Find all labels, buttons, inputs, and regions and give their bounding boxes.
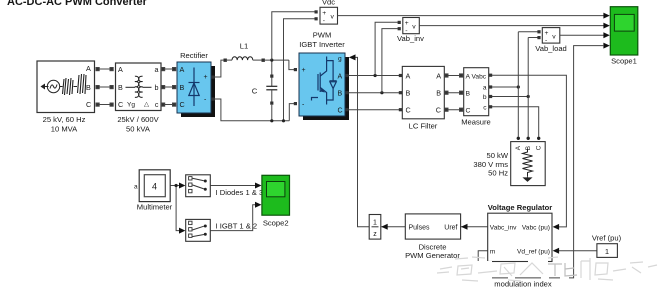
inverter IGBT icon bbox=[312, 57, 337, 105]
svg-text:+: + bbox=[545, 30, 549, 37]
svg-text:A: A bbox=[338, 73, 343, 80]
svg-text:B: B bbox=[118, 83, 123, 92]
wire Vab_load output to Scope1 input3 bbox=[560, 34, 609, 36]
svg-text:B: B bbox=[525, 146, 532, 150]
Measure output ports bbox=[489, 74, 492, 109]
svg-text:Vref (pu): Vref (pu) bbox=[592, 234, 622, 243]
Voltage Regulator block bbox=[488, 213, 552, 261]
junction dot B wire to Vab_inv bbox=[380, 91, 383, 94]
svg-text:C: C bbox=[338, 108, 343, 115]
svg-text:B: B bbox=[436, 89, 441, 98]
svg-text:g: g bbox=[338, 55, 342, 62]
svg-text:-: - bbox=[323, 18, 325, 25]
wire inverter A to LC filter bbox=[349, 75, 401, 77]
wire selector2 to Scope2 with label bbox=[211, 205, 257, 231]
svg-text:B: B bbox=[406, 89, 411, 98]
wire rectifier + to L1 bbox=[212, 60, 290, 121]
Measure block bbox=[464, 68, 489, 116]
svg-text:Multimeter: Multimeter bbox=[137, 203, 173, 212]
PWM IGBT Inverter block bbox=[299, 53, 349, 120]
svg-text:A: A bbox=[466, 73, 471, 80]
g input wire with arrow bbox=[349, 54, 369, 226]
wire measure b bbox=[492, 96, 528, 98]
svg-text:A: A bbox=[515, 145, 522, 150]
wire source A to transformer bbox=[96, 68, 113, 107]
svg-text:b: b bbox=[483, 94, 487, 101]
Scope1 bbox=[610, 7, 638, 55]
junction dot b bbox=[527, 95, 530, 98]
load block 50kW bbox=[511, 142, 546, 186]
svg-text:v: v bbox=[331, 14, 335, 21]
wire inverter C to LC filter bbox=[349, 109, 401, 111]
wire source C to transformer bbox=[96, 104, 113, 106]
svg-text:1: 1 bbox=[373, 220, 377, 227]
svg-text:PWM Generator: PWM Generator bbox=[405, 251, 460, 260]
svg-text:25 kV, 60 Hz: 25 kV, 60 Hz bbox=[43, 115, 86, 124]
svg-text:C: C bbox=[536, 145, 543, 150]
svg-text:C: C bbox=[86, 100, 91, 109]
selector block I Diodes bbox=[186, 175, 211, 197]
svg-text:Vdc: Vdc bbox=[322, 0, 335, 7]
wire measure a bbox=[492, 86, 518, 88]
source icon: arrow, sine circle, coils bbox=[41, 74, 87, 95]
svg-text:Pulses: Pulses bbox=[409, 224, 431, 231]
wire bottom rail to inverter - bbox=[289, 104, 295, 121]
svg-text:C: C bbox=[436, 106, 441, 115]
wire Vab_inv output to Scope1 input2 bbox=[419, 25, 608, 27]
wire L1 to inverter + bbox=[289, 60, 297, 121]
wire inverter B to LC filter bbox=[349, 92, 401, 94]
svg-text:Rectifier: Rectifier bbox=[180, 51, 208, 60]
junction dot Vdc - on rail bbox=[282, 119, 285, 122]
transformer coils icon bbox=[126, 76, 152, 97]
load port dots bbox=[517, 137, 520, 140]
junction dot cap bottom bbox=[270, 119, 273, 122]
wire source B to transformer bbox=[96, 86, 113, 88]
svg-text:50 kW: 50 kW bbox=[486, 151, 508, 160]
wire multimeter to selectors bbox=[171, 186, 182, 231]
svg-text:Vabc (pu): Vabc (pu) bbox=[522, 224, 550, 231]
svg-text:L1: L1 bbox=[240, 42, 248, 51]
svg-text:Vab_inv: Vab_inv bbox=[397, 34, 424, 43]
wires LC Filter to Measure bbox=[445, 74, 463, 111]
svg-text:Vd_ref (pu): Vd_ref (pu) bbox=[517, 248, 550, 255]
Scope1 input arrows bbox=[603, 13, 609, 49]
modulation index wire m to Scope1 input4 bbox=[478, 46, 604, 278]
svg-text:A: A bbox=[436, 71, 441, 80]
svg-text:A: A bbox=[406, 71, 411, 80]
svg-text:+: + bbox=[322, 10, 326, 17]
svg-text:4: 4 bbox=[152, 182, 157, 192]
rectifier block bbox=[177, 62, 215, 117]
svg-text:z: z bbox=[373, 231, 377, 238]
wire VR to Uref bbox=[461, 226, 488, 228]
LC Filter block bbox=[402, 66, 444, 118]
svg-text:LC Filter: LC Filter bbox=[409, 122, 438, 131]
wire pwm pulses to 1/z bbox=[381, 226, 405, 228]
svg-text:Vabc: Vabc bbox=[472, 73, 487, 80]
svg-text:C: C bbox=[466, 108, 471, 115]
wire rectifier - to bottom rail bbox=[212, 98, 215, 101]
Vdc measurement block bbox=[315, 7, 338, 24]
Vab_inv block bbox=[398, 18, 420, 35]
svg-text:C: C bbox=[406, 106, 411, 115]
svg-text:I IGBT 1 & 2: I IGBT 1 & 2 bbox=[216, 222, 258, 231]
Discrete PWM Generator block bbox=[405, 214, 460, 239]
vertical b to load and Vab_load bbox=[527, 38, 529, 137]
wires up to Vab_inv bbox=[375, 22, 398, 92]
svg-text:B: B bbox=[338, 91, 343, 98]
svg-text:v: v bbox=[552, 33, 556, 40]
selector block I IGBT bbox=[186, 219, 211, 241]
wires transformer to rectifier bbox=[162, 68, 177, 107]
svg-text:Scope2: Scope2 bbox=[263, 219, 289, 228]
svg-text:C: C bbox=[252, 86, 258, 95]
junction dot A wire to Vab_inv bbox=[374, 74, 377, 77]
junction dot cap top bbox=[270, 59, 273, 62]
Vab_load block bbox=[537, 28, 559, 44]
svg-text:Vabc_inv: Vabc_inv bbox=[490, 224, 517, 231]
Vref constant block bbox=[597, 244, 618, 258]
wire Vdc output to Scope1 input1 bbox=[338, 15, 609, 17]
svg-text:a: a bbox=[134, 184, 138, 191]
svg-text:A: A bbox=[118, 65, 123, 74]
watermark bbox=[437, 257, 657, 281]
wire Vabc to Voltage Regulator bbox=[492, 75, 566, 227]
svg-text:PWM: PWM bbox=[313, 31, 332, 40]
svg-text:Scope1: Scope1 bbox=[611, 57, 637, 66]
svg-text:A: A bbox=[86, 64, 91, 73]
junction dot a bbox=[517, 85, 520, 88]
svg-text:B: B bbox=[86, 83, 91, 92]
svg-text:25kV / 600V: 25kV / 600V bbox=[117, 115, 159, 124]
svg-text:A: A bbox=[180, 65, 185, 74]
capacitor C branch bbox=[266, 60, 277, 121]
wire up-branch b to Vab_load - bbox=[528, 37, 537, 39]
svg-text:B: B bbox=[466, 91, 471, 98]
svg-text:a: a bbox=[155, 65, 159, 74]
inductor L1 bbox=[224, 57, 289, 62]
svg-text:10 MVA: 10 MVA bbox=[51, 125, 78, 134]
wire selector1 to Scope2 with label bbox=[211, 185, 257, 187]
svg-text:b: b bbox=[155, 83, 159, 92]
inverter output ports bbox=[346, 74, 349, 111]
svg-text:50 kVA: 50 kVA bbox=[126, 125, 151, 134]
svg-text:AC-DC-AC PWM Converter: AC-DC-AC PWM Converter bbox=[7, 0, 148, 8]
svg-text:+: + bbox=[204, 74, 208, 81]
rectifier diode icon bbox=[189, 68, 200, 107]
svg-text:Uref: Uref bbox=[444, 224, 457, 231]
svg-text:v: v bbox=[412, 23, 416, 30]
svg-text:B: B bbox=[180, 83, 185, 92]
Scope2 bbox=[262, 175, 290, 215]
svg-text:+: + bbox=[405, 20, 409, 27]
unit delay 1/z block bbox=[369, 215, 381, 240]
svg-text:50 Hz: 50 Hz bbox=[488, 168, 508, 177]
svg-text:modulation index: modulation index bbox=[494, 280, 552, 289]
svg-text:1: 1 bbox=[605, 247, 609, 256]
svg-text:a: a bbox=[483, 85, 487, 92]
svg-text:Vab_load: Vab_load bbox=[535, 44, 567, 53]
transformer block bbox=[116, 63, 162, 111]
svg-text:Yg: Yg bbox=[127, 102, 135, 109]
Multimeter block bbox=[134, 170, 170, 202]
svg-text:m: m bbox=[490, 248, 496, 255]
svg-text:c: c bbox=[155, 100, 159, 109]
svg-text:+: + bbox=[302, 67, 306, 74]
Vdc sense wires bbox=[272, 12, 315, 121]
three-phase source block bbox=[37, 61, 95, 113]
svg-text:Measure: Measure bbox=[461, 118, 491, 127]
arrow into Vabc (pu) bbox=[553, 224, 560, 230]
svg-text:I Diodes 1 & 3: I Diodes 1 & 3 bbox=[216, 188, 264, 197]
svg-text:C: C bbox=[118, 100, 123, 109]
wire Vref to Vd_ref bbox=[559, 250, 597, 252]
wire measure c to load bbox=[492, 107, 539, 137]
load resistor zigzag icon bbox=[523, 149, 533, 182]
svg-text:C: C bbox=[180, 100, 185, 109]
svg-text:Voltage Regulator: Voltage Regulator bbox=[488, 203, 552, 212]
vertical a to load and Vab_load bbox=[517, 32, 519, 137]
svg-text:IGBT Inverter: IGBT Inverter bbox=[299, 40, 345, 49]
wire up-branch a to Vab_load + bbox=[518, 31, 537, 33]
svg-text:-: - bbox=[545, 37, 547, 44]
